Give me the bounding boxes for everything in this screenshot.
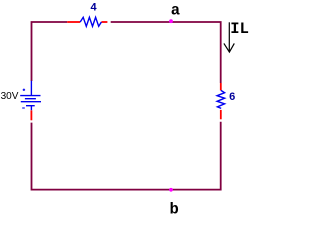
svg-text:4: 4 — [90, 2, 97, 14]
svg-text:6: 6 — [229, 92, 236, 104]
svg-text:30V: 30V — [1, 91, 19, 102]
svg-text:a: a — [171, 2, 180, 20]
svg-text:IL: IL — [230, 20, 249, 38]
svg-text:b: b — [170, 201, 179, 216]
